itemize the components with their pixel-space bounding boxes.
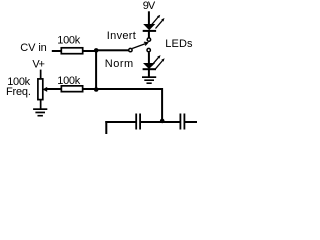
svg-text:Freq.: Freq. — [6, 86, 31, 98]
wire V+ to pot top — [40, 70, 42, 79]
wire capacitor rail left segment — [105, 121, 136, 123]
potentiometer wiper arrowhead — [42, 87, 47, 92]
LED D2 triangle — [143, 63, 155, 69]
switch S1 blade — [132, 43, 147, 49]
switch S1 blade arrowhead — [144, 42, 148, 45]
LED D2 emission arrow 1 — [152, 55, 161, 66]
ground symbol below D2 — [142, 76, 156, 78]
wire CV in lead — [52, 50, 62, 52]
LED D2 emission arrow 2 — [156, 58, 165, 69]
LED D1 cathode bar — [143, 30, 156, 32]
svg-text:Norm: Norm — [105, 58, 134, 70]
LED D2 cathode bar — [143, 68, 156, 70]
junction J2 — [94, 87, 99, 92]
junction J3 — [160, 119, 165, 124]
wire wiper to R2 and across to right drop — [46, 88, 163, 90]
svg-text:V+: V+ — [32, 59, 44, 71]
capacitor C1 right plate — [139, 114, 141, 130]
wire R1 right lead — [83, 50, 96, 52]
wire 9V to LED1 anode — [148, 11, 150, 24]
wire D2 cathode to ground — [148, 70, 150, 77]
capacitor C1 left plate — [135, 114, 137, 130]
wire J1 to switch common — [96, 49, 129, 51]
wire capacitor rail right segment — [185, 121, 197, 123]
capacitor C2 left plate — [180, 114, 182, 130]
ground symbol below pot — [33, 108, 47, 110]
wire vertical right drop to caps — [161, 88, 163, 122]
potentiometer VR1 body — [38, 79, 43, 100]
capacitor C2 right plate — [184, 114, 186, 130]
svg-text:LEDs: LEDs — [165, 38, 193, 50]
resistor R1 body — [61, 48, 82, 54]
wire pot bottom to ground — [40, 100, 42, 109]
LED D1 emission arrow 1 — [151, 15, 160, 26]
wire lower contact to LED D2 — [148, 52, 150, 63]
svg-text:Invert: Invert — [107, 30, 136, 42]
svg-text:100k: 100k — [57, 35, 80, 47]
LED D1 emission arrow 2 — [156, 18, 165, 29]
wire D1 cathode to upper contact — [148, 31, 150, 37]
svg-text:CV in: CV in — [20, 42, 46, 54]
switch S1 lower contact (Norm) — [147, 48, 150, 51]
wire vertical J1 to J2 — [95, 50, 97, 89]
LED D1 triangle — [143, 24, 155, 30]
junction J1 — [94, 48, 99, 53]
switch S1 common pole — [129, 48, 132, 51]
wire capacitor rail middle segment — [141, 121, 181, 123]
wire capacitor rail left drop — [105, 121, 107, 134]
resistor R2 body — [61, 86, 82, 92]
switch S1 upper contact (Invert) — [147, 38, 150, 41]
svg-text:9V: 9V — [143, 0, 156, 12]
